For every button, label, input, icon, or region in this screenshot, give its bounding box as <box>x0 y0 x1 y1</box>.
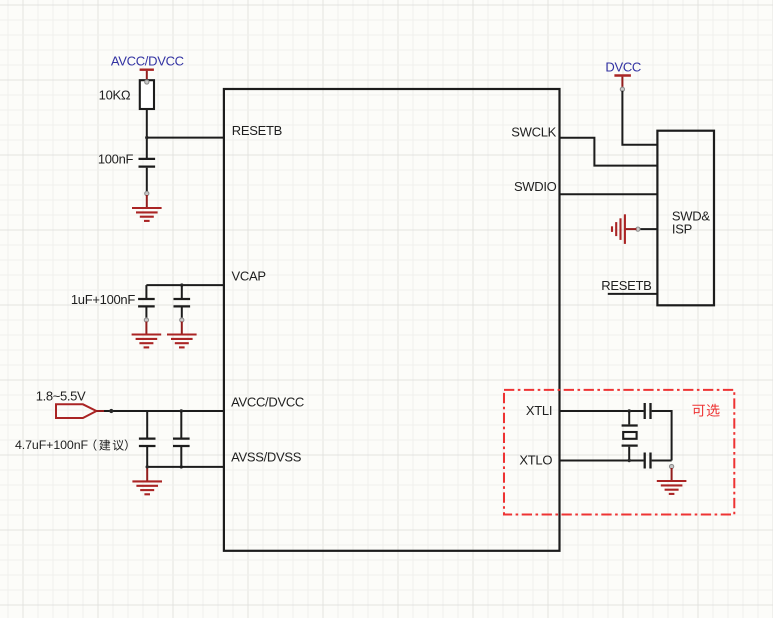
value label 100nF <box>98 152 134 167</box>
svg-text:AVSS/DVSS: AVSS/DVSS <box>231 450 302 465</box>
net label RESETB (SWD side) <box>601 278 651 293</box>
svg-text:RESETB: RESETB <box>601 278 651 293</box>
pin AVSS/DVSS label <box>231 450 302 465</box>
wire DVCC to SWD box <box>622 91 657 145</box>
node VCAP junction <box>180 283 183 286</box>
svg-text:ISP: ISP <box>672 221 692 236</box>
crystal Y1 <box>622 411 638 461</box>
capacitor C1 100nF <box>139 159 156 192</box>
node reset junction <box>145 136 148 139</box>
pin SWDIO label <box>514 179 557 194</box>
ground SWD (rotated) <box>612 214 640 244</box>
pin RESETB label <box>232 123 282 138</box>
wire XTLO <box>560 460 644 462</box>
pin VCAP label <box>232 269 266 284</box>
label optional (kexuan) <box>692 404 719 417</box>
svg-text:100nF: 100nF <box>98 152 134 167</box>
port arrow power input <box>56 404 104 418</box>
ground VCAP cap A <box>132 318 162 348</box>
svg-text:1.8~5.5V: 1.8~5.5V <box>36 388 86 403</box>
pin XTLI label <box>526 403 552 418</box>
connector U2 SWD&ISP box <box>657 131 714 306</box>
wire SWCLK <box>560 138 657 166</box>
svg-text:AVCC/DVCC: AVCC/DVCC <box>111 54 184 69</box>
resistor R1 10K pull-up <box>140 80 154 109</box>
svg-text:10KΩ: 10KΩ <box>99 88 131 103</box>
svg-text:DVCC: DVCC <box>605 59 641 74</box>
svg-text:XTLO: XTLO <box>519 453 552 468</box>
ground reset cap <box>132 191 162 221</box>
value label 1uF+100nF <box>71 292 136 307</box>
capacitor C6 (XTLI load cap) <box>645 403 651 419</box>
wire RESETB stub <box>608 293 658 295</box>
power net label AVCC/DVCC <box>111 54 184 69</box>
net label 1.8~5.5V <box>36 388 86 403</box>
label SWD&ISP <box>672 208 710 236</box>
power symbol DVCC <box>614 76 631 92</box>
wire AVSS/DVSS <box>146 465 224 468</box>
pin AVCC/DVCC label <box>231 394 304 409</box>
node AVSS junction <box>180 465 183 468</box>
pin XTLO label <box>519 453 552 468</box>
svg-text:RESETB: RESETB <box>232 123 282 138</box>
capacitor C7 (XTLO load cap) <box>645 453 651 469</box>
capacitor C5 (100nF) <box>173 411 190 467</box>
svg-text:XTLI: XTLI <box>526 403 552 418</box>
node AVCC junction <box>180 409 183 412</box>
wire XTLI <box>560 410 644 412</box>
wire resistor to junction to cap <box>146 109 148 158</box>
svg-text:4.7uF+100nF: 4.7uF+100nF <box>15 438 88 452</box>
IC U1 MCU block outline <box>224 89 560 551</box>
node crystal top junction <box>628 409 631 412</box>
ground crystal <box>657 464 687 494</box>
svg-text:1uF+100nF: 1uF+100nF <box>71 292 136 307</box>
svg-text:AVCC/DVCC: AVCC/DVCC <box>231 394 304 409</box>
wire VCAP to caps <box>146 284 224 286</box>
optional section dashed box <box>504 390 734 515</box>
svg-text:VCAP: VCAP <box>232 269 266 284</box>
wire XTLI cap to corner <box>652 411 672 461</box>
power net label DVCC <box>605 59 641 74</box>
power symbol AVCC/DVCC bar <box>140 70 154 81</box>
wire AVCC/DVCC input <box>104 409 224 413</box>
capacitor C4 (4.7uF) <box>139 411 156 467</box>
wire SWDIO <box>560 193 657 195</box>
wire RESETB to MCU <box>147 137 224 139</box>
wire XTLO cap to corner <box>628 459 672 462</box>
wire SWD box ground pin <box>638 228 658 230</box>
svg-text:SWDIO: SWDIO <box>514 179 557 194</box>
svg-text:SWCLK: SWCLK <box>511 125 556 140</box>
pin SWCLK label <box>511 125 556 140</box>
ground VCAP cap B <box>167 318 197 348</box>
ground power input <box>132 468 162 494</box>
value label 10K ohm <box>99 88 131 103</box>
capacitor C2 (VCAP 1uF) <box>138 285 155 318</box>
capacitor C3 (VCAP 100nF) <box>174 285 191 318</box>
value label 4.7uF+100nF (advised) <box>15 438 128 452</box>
